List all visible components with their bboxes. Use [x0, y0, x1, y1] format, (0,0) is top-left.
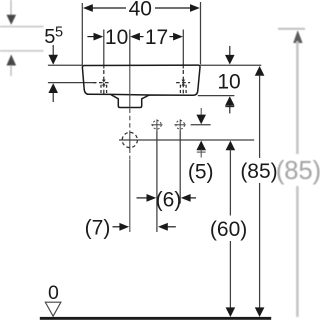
svg-text:5: 5 — [55, 24, 63, 40]
extension line tap hole 2 — [182, 30, 184, 69]
dimension (6) — [137, 189, 197, 212]
tap hole 2 center mark — [181, 80, 185, 86]
dimension (60) vertical line — [226, 141, 236, 317]
svg-text:17: 17 — [145, 26, 168, 49]
fixing hole level line — [119, 139, 254, 141]
dimension 5.5 down arrow — [48, 45, 58, 65]
dimension (5) down arrow — [196, 108, 206, 124]
dimension 10 (right side) up arrow — [225, 96, 235, 113]
svg-text:(5): (5) — [188, 161, 214, 184]
fixing hole 1 crosshair — [151, 119, 162, 130]
dimension 5.5 up arrow — [48, 83, 58, 102]
dimension 10 (top row) — [87, 26, 128, 49]
svg-text:(85): (85) — [240, 160, 277, 183]
dimension (5) up arrow — [196, 141, 206, 158]
basin bottom edge through drain flange — [111, 93, 150, 96]
siphon dashed circle — [122, 132, 137, 147]
tap hole level line left — [48, 82, 96, 84]
datum triangle — [45, 302, 61, 316]
basin outline — [82, 65, 200, 107]
svg-text:5: 5 — [44, 26, 55, 48]
dimension 5-super-5 label — [44, 24, 63, 48]
extension line tap hole 1 — [103, 30, 105, 69]
svg-text:(7): (7) — [85, 217, 111, 240]
tap hole 1 symbol (dashed cross) — [93, 70, 111, 94]
svg-text:0: 0 — [48, 282, 59, 304]
dimension (7) — [85, 217, 176, 240]
extension line drain center upper — [129, 30, 131, 67]
svg-text:(60): (60) — [210, 218, 247, 241]
dimension 17 (top row) — [130, 26, 183, 49]
svg-text:40: 40 — [129, 0, 152, 21]
tap hole 2 symbol (dashed cross) — [176, 70, 190, 94]
fixing hole level extension line right — [191, 124, 211, 126]
ghost dimension fragment left (adjacent drawing, faded) — [0, 0, 44, 76]
svg-text:10: 10 — [217, 71, 240, 94]
extension line fixing hole 1 down — [156, 130, 158, 232]
tap hole 1 center mark — [102, 80, 106, 86]
drain center line (dash-dot) — [129, 66, 131, 232]
extension line basin left (40) — [81, 3, 83, 65]
ghost dimension fragment right (adjacent drawing, faded) — [276, 29, 320, 317]
extension line basin bottom right — [198, 95, 235, 97]
svg-text:(6): (6) — [156, 189, 182, 212]
extension line basin top right — [201, 64, 262, 66]
dimension 10 (right side) down arrow — [225, 46, 235, 65]
floor line — [40, 317, 271, 320]
extension line fixing hole 2 down — [179, 130, 181, 203]
svg-text:(85): (85) — [276, 157, 320, 185]
extension line basin top left — [48, 64, 83, 66]
extension line basin right (40) — [200, 2, 202, 65]
dimension (85) vertical line — [255, 66, 265, 317]
fixing hole 2 crosshair — [175, 119, 186, 130]
svg-text:10: 10 — [105, 26, 128, 49]
dimension 40 — [83, 0, 200, 21]
